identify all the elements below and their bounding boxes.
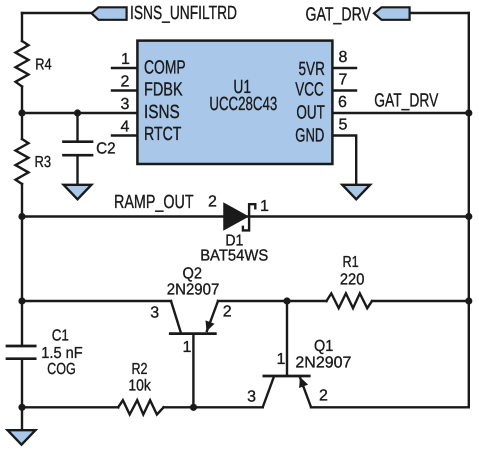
svg-text:GAT_DRV: GAT_DRV <box>374 91 438 112</box>
ground symbol bottom left <box>8 430 36 445</box>
junction node Q1 base <box>283 297 290 304</box>
svg-text:1: 1 <box>277 351 286 368</box>
svg-text:1: 1 <box>183 339 192 356</box>
resistor R2 <box>118 400 163 414</box>
svg-text:7: 7 <box>339 72 348 89</box>
svg-text:FDBK: FDBK <box>144 80 183 101</box>
wire between R4 and node <box>21 87 23 140</box>
svg-text:ISNS: ISNS <box>144 102 180 123</box>
junction node R1 at right rail <box>465 297 472 304</box>
net tag ISNS_UNFILTRD <box>92 7 127 19</box>
resistor R3 <box>16 139 29 184</box>
svg-text:C2: C2 <box>96 141 116 158</box>
diode D1 schottky cathode bar <box>243 204 255 230</box>
junction node bottom left rail <box>18 404 25 411</box>
wire Q2 collector net from rail <box>22 300 171 302</box>
svg-text:5VR: 5VR <box>299 59 325 80</box>
junction node OUT net at right rail <box>465 109 472 116</box>
wire OUT net pin 6 to right rail <box>331 112 469 114</box>
junction node Q2 net at left rail <box>18 297 25 304</box>
wire left rail lower segment <box>21 184 23 345</box>
transistor Q1 emitter diagonal leg 2 <box>300 378 311 408</box>
svg-text:1.5 nF: 1.5 nF <box>41 345 83 362</box>
svg-text:2: 2 <box>121 74 130 91</box>
wire R2 to Q1 <box>164 406 263 408</box>
transistor Q2 emitter arrowhead <box>206 320 215 331</box>
svg-text:3: 3 <box>150 305 159 322</box>
svg-text:6: 6 <box>338 94 347 111</box>
svg-text:UCC28C43: UCC28C43 <box>209 94 277 115</box>
svg-text:Q2: Q2 <box>183 266 203 283</box>
wire pin 8 stub <box>331 67 356 69</box>
transistor Q1 emitter arrowhead <box>299 377 308 388</box>
wire GAT_DRV tag to right rail <box>410 12 469 14</box>
wire pin 7 stub <box>331 89 356 91</box>
svg-text:VCC: VCC <box>295 80 324 101</box>
wire RAMP_OUT net <box>22 215 469 217</box>
transistor Q2 collector diagonal leg 3 <box>171 301 181 333</box>
wire Q2 emitter to node <box>218 300 287 302</box>
wire node to R1 <box>287 300 327 302</box>
svg-text:4: 4 <box>121 119 130 136</box>
svg-text:2: 2 <box>319 388 328 405</box>
wire pin 4 stub <box>112 134 139 136</box>
resistor R1 <box>327 293 373 308</box>
svg-text:R1: R1 <box>343 254 359 271</box>
transistor Q1 collector diagonal leg 3 <box>263 378 274 408</box>
diode D1 triangle <box>224 204 248 230</box>
svg-text:10k: 10k <box>128 377 151 394</box>
svg-text:R3: R3 <box>35 154 52 171</box>
resistor R4 <box>16 41 29 87</box>
svg-text:BAT54WS: BAT54WS <box>200 247 268 264</box>
wire Q1 emitter to right rail <box>311 406 469 408</box>
transistor Q2 emitter diagonal leg 2 <box>207 301 218 331</box>
junction node on ISNS net at left rail <box>18 109 25 116</box>
wire ISNS net from rail to pin 3 <box>22 112 139 114</box>
svg-text:1: 1 <box>260 198 269 215</box>
svg-text:2N2907: 2N2907 <box>167 282 220 299</box>
svg-text:2: 2 <box>208 194 217 211</box>
transistor Q2 base leg 1 <box>192 335 194 408</box>
svg-text:RAMP_OUT: RAMP_OUT <box>114 192 194 213</box>
junction node Q2 leg1 at bottom wire <box>190 404 197 411</box>
svg-text:COG: COG <box>47 361 76 378</box>
transistor Q1 base bar <box>263 375 311 378</box>
ground symbol below C2 <box>64 185 92 200</box>
svg-text:C1: C1 <box>52 328 69 345</box>
svg-text:5: 5 <box>339 117 348 134</box>
capacitor C2 top lead <box>76 113 78 141</box>
svg-text:8: 8 <box>339 49 348 66</box>
IC U1 body <box>137 41 332 164</box>
svg-text:2N2907: 2N2907 <box>295 355 351 372</box>
wire left rail upper segment <box>21 13 23 41</box>
capacitor C1 plates <box>7 346 35 359</box>
net tag GAT_DRV <box>374 7 410 19</box>
svg-text:OUT: OUT <box>296 102 325 123</box>
wire bottom left to R2 <box>22 406 118 408</box>
wire R1 to right rail <box>372 300 469 302</box>
junction node C2 to ISNS net <box>74 109 81 116</box>
svg-text:COMP: COMP <box>144 57 186 78</box>
capacitor C2 plates <box>64 142 93 156</box>
svg-text:2: 2 <box>223 303 232 320</box>
svg-text:RTCT: RTCT <box>144 124 182 145</box>
svg-text:GAT_DRV: GAT_DRV <box>306 4 372 25</box>
junction node RAMP_OUT at right rail <box>465 213 472 220</box>
svg-text:Q1: Q1 <box>314 338 333 355</box>
wire top-left from left rail to ISNS_UNFILTRD tag <box>22 12 92 14</box>
wire pin 5 GND to ground <box>331 136 356 185</box>
svg-text:3: 3 <box>121 96 130 113</box>
wire pin 1 stub <box>112 67 139 69</box>
wire right rail <box>468 13 470 407</box>
capacitor C2 bottom lead <box>76 156 78 184</box>
junction node RAMP_OUT at left rail <box>18 213 25 220</box>
svg-text:220: 220 <box>340 271 365 288</box>
wire left rail below C1 <box>21 360 23 429</box>
transistor Q2 base bar <box>169 332 217 335</box>
svg-text:3: 3 <box>247 389 256 406</box>
wire pin 2 stub <box>112 89 139 91</box>
ground symbol below pin 5 <box>342 185 370 200</box>
svg-text:GND: GND <box>295 126 324 147</box>
svg-text:R4: R4 <box>35 57 51 74</box>
transistor Q1 base leg 1 <box>286 301 288 375</box>
svg-text:R2: R2 <box>132 361 148 378</box>
svg-text:1: 1 <box>121 51 130 68</box>
svg-text:ISNS_UNFILTRD: ISNS_UNFILTRD <box>130 3 237 24</box>
